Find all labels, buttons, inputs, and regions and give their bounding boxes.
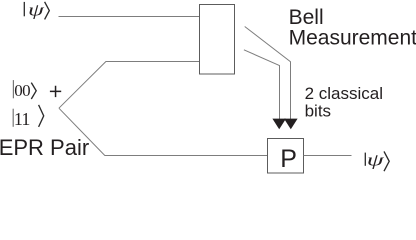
node EPR ket 11 bar [12, 109, 14, 127]
wire psi-in to Bell box [59, 16, 200, 18]
svg-text:bits: bits [305, 102, 331, 121]
wire classical lower fan [244, 50, 280, 119]
svg-text:P: P [280, 145, 297, 173]
node EPR ket 11 right bracket [39, 105, 44, 127]
wire P to psi-out [304, 155, 352, 157]
box U1 Bell measurement [200, 5, 235, 75]
arrowhead classical bit 2 [284, 119, 298, 130]
node EPR ket 00 bar [12, 80, 14, 98]
node EPR ket 00 right bracket [31, 83, 36, 99]
node psi-in ket right bracket [45, 2, 50, 20]
svg-text:11: 11 [14, 109, 30, 129]
box U2 P correction [268, 139, 304, 174]
node psi-out right bracket [384, 151, 389, 171]
svg-text:00: 00 [14, 81, 30, 100]
svg-text:2 classical: 2 classical [305, 84, 383, 103]
node EPR plus sign [50, 86, 61, 97]
node psi-out ket bar [364, 153, 366, 166]
svg-text:ψ: ψ [28, 0, 44, 19]
wire EPR upper branch [59, 62, 200, 109]
node psi-in ket bar [23, 2, 25, 16]
arrowhead classical bit 1 [272, 119, 286, 130]
svg-text:ψ: ψ [367, 151, 385, 170]
wire classical upper fan [245, 27, 291, 120]
svg-text:Measurement: Measurement [289, 26, 416, 49]
svg-text:EPR Pair: EPR Pair [0, 135, 89, 160]
wire EPR lower branch [59, 108, 268, 155]
